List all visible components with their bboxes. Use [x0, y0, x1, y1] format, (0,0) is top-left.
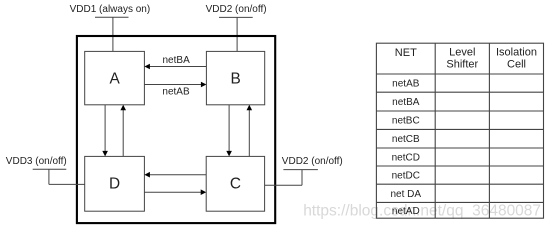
svg-text:D: D	[109, 175, 120, 192]
svg-text:netCD: netCD	[392, 153, 420, 164]
svg-text:netBC: netBC	[392, 116, 420, 127]
svg-text:VDD3 (on/off): VDD3 (on/off)	[6, 156, 67, 167]
table frame	[376, 43, 543, 218]
wire C to B (arrow up)	[247, 105, 253, 157]
svg-text:Cell: Cell	[507, 58, 526, 70]
wire A to D (arrow down)	[102, 105, 108, 157]
block B	[206, 51, 264, 104]
wire VDD3 to D	[49, 183, 85, 185]
svg-text:netCB: netCB	[392, 134, 420, 145]
wire C to D (arrow left)	[144, 172, 206, 178]
header Level Shifter	[446, 47, 478, 71]
wire VDD2 drop to B	[236, 17, 238, 51]
table row line 8	[376, 201, 543, 203]
wire B to C (arrow down)	[226, 105, 232, 157]
wire VDD1 drop to A	[112, 17, 114, 51]
svg-text:C: C	[230, 175, 241, 192]
svg-text:NET: NET	[395, 47, 417, 59]
svg-text:netDC: netDC	[392, 171, 420, 182]
header Isolation Cell	[496, 47, 537, 71]
wire netBA (B to A, arrow left)	[144, 64, 206, 70]
wire D to A (arrow up)	[120, 105, 126, 157]
svg-text:netAB: netAB	[392, 79, 420, 90]
svg-text:A: A	[109, 70, 120, 87]
wire VDD3 underline	[33, 168, 67, 170]
wire VDD2 underline	[219, 16, 253, 18]
svg-text:netAB: netAB	[162, 87, 190, 98]
table row line 2	[376, 91, 543, 93]
wire VDD2 right to C	[265, 184, 302, 186]
table row line 7	[376, 183, 543, 185]
block A	[85, 51, 145, 104]
wire VDD2 right underline	[283, 169, 318, 171]
svg-text:VDD1 (always on): VDD1 (always on)	[70, 4, 151, 15]
svg-text:Isolation: Isolation	[496, 47, 537, 59]
svg-text:netAD: netAD	[392, 206, 420, 217]
svg-text:net DA: net DA	[391, 189, 422, 200]
block D	[85, 156, 145, 211]
svg-text:VDD2 (on/off): VDD2 (on/off)	[282, 156, 343, 167]
svg-text:netBA: netBA	[163, 55, 191, 66]
svg-text:B: B	[230, 70, 240, 87]
wire netAB (A to B, arrow right)	[144, 82, 206, 88]
block C	[206, 156, 264, 211]
table row line 4	[376, 128, 543, 130]
svg-text:https://blog.csdn.net/qq_36480: https://blog.csdn.net/qq_36480087	[303, 202, 541, 219]
table column line 1	[434, 43, 436, 218]
svg-text:Shifter: Shifter	[446, 58, 478, 70]
table row line 6	[376, 165, 543, 167]
wire VDD2 right drop	[301, 170, 303, 186]
svg-text:VDD2 (on/off): VDD2 (on/off)	[206, 4, 267, 15]
svg-text:Level: Level	[449, 47, 475, 59]
table row line 5	[376, 147, 543, 149]
table row line 3	[376, 110, 543, 112]
svg-text:netBA: netBA	[392, 97, 420, 108]
outer chip boundary	[77, 36, 275, 223]
wire VDD1 underline	[95, 16, 129, 18]
table row line 1	[376, 73, 543, 75]
wire D to C (arrow right)	[144, 189, 206, 195]
table column line 2	[488, 43, 490, 218]
wire VDD3 drop	[48, 169, 50, 184]
